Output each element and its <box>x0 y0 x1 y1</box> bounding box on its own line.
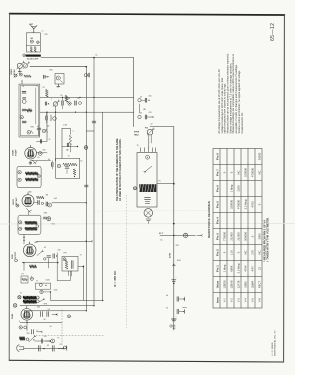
svg-text:470K: 470K <box>169 252 172 258</box>
wire y305 <box>20 305 94 307</box>
wire y310 <box>30 310 86 312</box>
svg-text:12BE6: 12BE6 <box>223 280 227 289</box>
T3 terminal 3 <box>37 175 40 178</box>
wire y322 <box>20 321 62 323</box>
T3 winding 1 <box>26 172 39 175</box>
loop coil winding 2 <box>34 47 36 52</box>
svg-text:DET AVC: DET AVC <box>15 197 18 205</box>
speaker arrow <box>145 166 151 171</box>
tube V4 <box>23 244 36 257</box>
svg-text:680K: 680K <box>230 265 234 271</box>
svg-text:.05: .05 <box>37 157 40 159</box>
wire above T3 <box>31 160 51 162</box>
tube V2 <box>25 147 37 159</box>
svg-text:V-6: V-6 <box>258 298 262 303</box>
svg-text:12AT6: 12AT6 <box>12 198 15 205</box>
T4 winding 1 <box>25 221 37 224</box>
svg-text:5: 5 <box>32 311 33 313</box>
wire B+ y241 <box>36 240 86 242</box>
T3 winding 2 <box>26 178 39 181</box>
svg-text:.05: .05 <box>77 98 80 100</box>
capacitor C23 <box>40 339 42 343</box>
T2 capacitor <box>65 166 69 168</box>
wire y300 <box>51 299 103 301</box>
capacitor C25 <box>51 346 53 352</box>
svg-text:25,000: 25,000 <box>230 232 234 241</box>
tube V5 <box>21 309 33 321</box>
tube V3 <box>22 195 34 207</box>
svg-text:AS USED IN PHOTOFACT FOLDERS F: AS USED IN PHOTOFACT FOLDERS FOR THIS CH… <box>119 138 122 201</box>
svg-text:.1: .1 <box>51 99 53 101</box>
T1 winding c <box>22 108 26 110</box>
svg-text:.01: .01 <box>37 126 40 128</box>
component value labels <box>19 31 181 348</box>
svg-text:65—12: 65—12 <box>270 23 276 41</box>
terminal circle V3 <box>16 204 19 207</box>
svg-text:THE SYMBOLIZATION OF THE SCHEM: THE SYMBOLIZATION OF THE SCHEMATIC IS TH… <box>116 138 119 201</box>
terminal circle V4 <box>15 259 18 262</box>
svg-text:T4: T4 <box>20 293 22 295</box>
power plug <box>17 345 20 352</box>
svg-text:47: 47 <box>49 139 51 141</box>
resistor R1 <box>24 75 31 78</box>
voice coil hatch band <box>139 184 156 192</box>
svg-text:Pin 7: Pin 7 <box>216 169 220 176</box>
svg-text:22: 22 <box>258 267 262 270</box>
T5 primary circle <box>63 258 66 261</box>
wire V2 plate <box>36 140 47 142</box>
svg-text:RESISTANCE READINGS: RESISTANCE READINGS <box>207 201 211 238</box>
junction dot <box>43 348 44 349</box>
chassis dashed vertical <box>126 195 128 330</box>
junction y183 <box>173 183 175 185</box>
T5 core <box>71 261 73 269</box>
capacitor C17 <box>43 216 47 218</box>
bus cap y186 <box>85 184 89 186</box>
svg-text:4700: 4700 <box>251 201 255 207</box>
svg-text:1000: 1000 <box>177 260 181 262</box>
capacitor C22 <box>31 330 33 334</box>
terminal pair <box>19 326 22 329</box>
svg-text:51-530 LOOP: 51-530 LOOP <box>27 58 39 60</box>
svg-text:Value: Value <box>216 280 220 288</box>
wire below T4 <box>23 234 25 244</box>
capacitor C21 <box>46 312 48 317</box>
svg-text:12AT6: 12AT6 <box>237 280 241 288</box>
svg-text:12BE6: 12BE6 <box>11 68 13 75</box>
svg-text:12BA6: 12BA6 <box>12 149 15 156</box>
svg-text:Item: Item <box>216 297 220 303</box>
IF transformer T2 box <box>56 158 80 178</box>
svg-text:270: 270 <box>251 250 255 255</box>
svg-text:1 Meg: 1 Meg <box>223 264 227 272</box>
svg-text:PL: PL <box>58 338 60 340</box>
arrow bottom <box>58 347 62 349</box>
T4 winding 2 <box>25 227 37 230</box>
svg-text:† TAKEN WITH VTVM VOLTMETER.: † TAKEN WITH VTVM VOLTMETER. <box>266 217 270 262</box>
svg-text:B+: B+ <box>96 55 98 57</box>
svg-text:220000: 220000 <box>244 168 248 177</box>
bus crosstie <box>86 130 94 132</box>
T3 terminal 1 <box>18 171 21 174</box>
svg-text:+: + <box>176 316 177 318</box>
wire y262 <box>22 262 58 264</box>
svg-text:V-5: V-5 <box>251 298 255 303</box>
speaker box <box>137 153 157 208</box>
dashed chassis line <box>61 310 63 346</box>
svg-text:NC: NC <box>244 251 248 255</box>
resistor R3 <box>50 115 52 121</box>
ground V2 <box>32 160 36 164</box>
resistor R8 <box>20 337 26 341</box>
switch SW1 <box>26 338 29 341</box>
svg-text:T6: T6 <box>137 145 139 147</box>
IF transformer T3 box <box>17 166 41 187</box>
svg-text:B+: B+ <box>81 161 83 163</box>
T4 terminal 3 <box>36 225 39 228</box>
svg-text:PRI: PRI <box>45 34 48 36</box>
svg-text:3.2: 3.2 <box>48 309 51 311</box>
ground gang <box>19 68 21 71</box>
loop terminal circle 2 <box>37 41 40 44</box>
T6 arrow <box>40 300 44 302</box>
svg-text:50B5: 50B5 <box>244 281 248 288</box>
T3 terminal 2 <box>18 178 21 181</box>
T6 terminal right 1 <box>36 296 39 299</box>
small circle V4 <box>44 258 46 260</box>
capacitor C9 <box>138 99 141 102</box>
pilot lamp <box>51 339 55 343</box>
svg-text:40: 40 <box>44 319 46 321</box>
T1 terminal circle d <box>20 116 23 119</box>
svg-text:47: 47 <box>151 124 153 126</box>
svg-text:© J. F. RIDER: © J. F. RIDER <box>271 342 274 356</box>
resistor R4 <box>139 104 141 113</box>
resistor R2 <box>45 90 48 98</box>
electrolytic on bus <box>84 146 88 150</box>
bus line x103 <box>102 112 104 300</box>
svg-text:3.3 Meg: 3.3 Meg <box>237 263 241 273</box>
bypass circle <box>68 102 71 105</box>
svg-text:470: 470 <box>149 112 152 114</box>
svg-text:+: + <box>176 277 177 279</box>
svg-text:10M: 10M <box>44 213 48 215</box>
ferrite rod bar <box>26 55 41 57</box>
svg-text:455: 455 <box>43 150 46 152</box>
wire top right <box>150 126 174 128</box>
bus tick cap <box>92 120 96 122</box>
svg-text:2200: 2200 <box>237 185 241 191</box>
T6 terminal left <box>18 296 21 299</box>
capacitor C11 <box>37 127 41 129</box>
bus line x86 <box>85 67 87 311</box>
svg-text:35W4: 35W4 <box>11 313 14 319</box>
T5 winding <box>65 261 68 270</box>
svg-text:120: 120 <box>44 336 47 338</box>
voice coil circle <box>144 209 153 218</box>
small box B2 <box>35 283 50 289</box>
grid circle <box>38 152 42 156</box>
svg-text:B2: B2 <box>31 38 33 40</box>
svg-text:.05: .05 <box>140 97 143 99</box>
arrow right <box>197 234 201 236</box>
resistance table grid <box>213 149 262 309</box>
svg-text:R1: R1 <box>43 87 45 89</box>
svg-text:1 Meg: 1 Meg <box>230 184 234 192</box>
svg-text:IF AMP: IF AMP <box>15 149 18 156</box>
svg-text:T2: T2 <box>68 156 70 158</box>
svg-text:.02: .02 <box>44 247 47 249</box>
dark cap y320 <box>172 318 177 320</box>
bus right x174 <box>173 127 175 330</box>
svg-text:NC: NC <box>258 171 262 175</box>
wire x47 <box>46 112 48 141</box>
T1 bottom trimmer <box>27 131 31 135</box>
part circle <box>30 277 33 280</box>
svg-text:.05: .05 <box>66 150 68 152</box>
svg-text:NC: NC <box>258 251 262 255</box>
junction dots y112 <box>46 112 47 113</box>
svg-text:35W4: 35W4 <box>251 280 255 288</box>
T5 arrow out <box>78 266 83 268</box>
speaker terminal <box>13 304 17 308</box>
capacitor C18 <box>47 255 51 257</box>
below bars <box>146 218 151 220</box>
svg-text:30000: 30000 <box>258 152 262 160</box>
svg-text:NC: NC <box>237 171 241 175</box>
junction circle y316 <box>68 315 71 318</box>
wire y341 <box>35 340 50 342</box>
T1 capacitor e <box>22 120 26 122</box>
variable capacitor C1B <box>23 64 27 68</box>
svg-text:Pin 2: Pin 2 <box>216 249 220 256</box>
svg-text:.02: .02 <box>60 95 63 97</box>
svg-text:T1: T1 <box>36 86 38 88</box>
resistor R5 <box>37 196 45 199</box>
branch y311 <box>176 309 178 314</box>
svg-text:V-2: V-2 <box>230 298 234 303</box>
svg-text:3000: 3000 <box>258 233 262 239</box>
svg-text:L1: L1 <box>42 31 44 33</box>
detector transformer T4 box <box>18 215 41 234</box>
svg-text:IF = 455 KC: IF = 455 KC <box>113 270 117 287</box>
svg-text:RECT: RECT <box>258 280 262 288</box>
svg-text:.05: .05 <box>47 345 50 347</box>
terminal ticks <box>140 148 142 152</box>
svg-text:V-3: V-3 <box>237 298 241 303</box>
svg-text:47: 47 <box>60 344 62 346</box>
capacitor C10 <box>138 115 141 118</box>
wire y112 <box>40 111 134 113</box>
svg-text:1.1K: 1.1K <box>230 250 234 256</box>
output transformer T6 winding 1 <box>23 296 36 300</box>
svg-text:.002: .002 <box>54 198 58 200</box>
loop inner divider <box>26 44 40 46</box>
T5 below ticks <box>68 271 70 276</box>
capacitor C6 <box>45 116 47 120</box>
branch y299 <box>176 297 178 302</box>
bus end component <box>170 325 172 327</box>
oscillator coil L2 box <box>55 74 64 85</box>
svg-text:B+: B+ <box>161 240 163 242</box>
T1 capacitor a <box>22 91 26 93</box>
svg-text:.05: .05 <box>48 159 51 161</box>
svg-text:1.5M: 1.5M <box>63 125 67 127</box>
loop coil winding 1 <box>30 47 32 52</box>
line tube to wire <box>26 320 28 331</box>
T2 winding <box>63 163 77 166</box>
svg-text:300000: 300000 <box>244 232 248 241</box>
trimmer C12 <box>42 129 45 132</box>
capacitor C13 <box>62 146 78 148</box>
border frame <box>9 14 284 362</box>
svg-text:3.3 Meg: 3.3 Meg <box>244 199 248 209</box>
jack leads <box>148 135 150 148</box>
loop terminal circle 1 <box>30 40 33 43</box>
top jack circle <box>147 129 153 135</box>
resistor R10 <box>69 135 72 145</box>
resistor R6 <box>30 265 37 268</box>
svg-text:Pin 6: Pin 6 <box>216 185 220 192</box>
arrow lamp <box>46 340 50 342</box>
svg-text:.2: .2 <box>36 330 38 332</box>
svg-text:SW: SW <box>27 333 30 335</box>
terminal A circle <box>23 54 26 57</box>
T4 terminal 1 <box>19 221 22 224</box>
svg-text:220: 220 <box>58 250 61 252</box>
T1 trimmer circle b <box>22 100 26 104</box>
resistor box R7 <box>21 276 28 283</box>
svg-text:V-4: V-4 <box>244 298 248 303</box>
svg-text:50: 50 <box>50 326 52 328</box>
svg-text:.02: .02 <box>140 113 143 115</box>
loop antenna L1 box <box>26 33 40 52</box>
capacitor C8 <box>74 101 76 105</box>
capacitor C3 on bus <box>84 74 87 77</box>
svg-text:40: 40 <box>166 295 168 297</box>
antenna <box>33 28 35 33</box>
T2 terminal <box>57 164 61 168</box>
capacitor C16 <box>45 202 47 206</box>
svg-text:R12: R12 <box>176 245 179 247</box>
wire osc run <box>30 66 86 68</box>
svg-text:600: 600 <box>37 307 40 309</box>
svg-text:Pin 3: Pin 3 <box>216 233 220 240</box>
fold mark <box>95 210 210 213</box>
svg-text:1500: 1500 <box>54 290 58 292</box>
svg-text:47K*: 47K* <box>251 266 255 272</box>
T1 inner lead <box>35 88 37 124</box>
svg-text:Pin 5: Pin 5 <box>216 201 220 208</box>
wire y348 <box>24 348 66 350</box>
svg-text:25,000: 25,000 <box>237 232 241 241</box>
wire y335 dashed <box>36 335 105 337</box>
svg-text:.05: .05 <box>143 109 146 111</box>
meter circle <box>183 233 187 237</box>
electrolytic y281 <box>172 279 176 281</box>
svg-text:OUTPUT: OUTPUT <box>15 251 17 259</box>
ground osc <box>57 84 59 87</box>
capacitor C4 <box>44 102 46 105</box>
electrolytic above box <box>47 217 51 221</box>
svg-text:Pin 4: Pin 4 <box>216 217 220 224</box>
wire x57 <box>56 253 58 271</box>
trimmer C5 <box>53 102 57 106</box>
resistor R11 <box>65 96 68 103</box>
junction dots y97/57 <box>93 57 95 59</box>
svg-text:T5: T5 <box>80 255 82 257</box>
small part above T3 <box>29 162 32 165</box>
capacitor C7 <box>61 101 63 105</box>
capacitor C14 <box>51 163 53 167</box>
svg-text:FIELD: FIELD <box>134 134 140 136</box>
capacitor C24 <box>37 346 39 352</box>
wire x55 <box>55 112 57 161</box>
output transformer T5 box <box>62 257 78 272</box>
svg-text:470000: 470000 <box>237 200 241 209</box>
junction pair y264 <box>173 264 174 265</box>
wire y97 <box>40 96 134 98</box>
svg-text:470000: 470000 <box>251 168 255 177</box>
crease <box>0 222 295 225</box>
wire top B+ run <box>41 57 134 59</box>
svg-text:770000: 770000 <box>223 232 227 241</box>
capacitor C20 <box>40 312 42 317</box>
svg-text:470K: 470K <box>244 265 248 271</box>
capacitor C15 <box>37 201 39 205</box>
wire x83 <box>82 267 84 301</box>
svg-text:12BA6: 12BA6 <box>230 280 234 289</box>
svg-text:PRI: PRI <box>64 253 67 255</box>
osc trimmer cluster <box>14 74 17 77</box>
svg-text:SPKR: SPKR <box>134 132 140 134</box>
bus line x94 <box>93 58 95 306</box>
svg-text:Pin 1: Pin 1 <box>216 265 220 272</box>
T2 trimmer <box>73 169 76 175</box>
junction y223 <box>173 223 175 225</box>
svg-text:P.M.: P.M. <box>145 128 149 130</box>
pot circle <box>40 290 43 293</box>
dot cluster x75 <box>75 112 76 113</box>
ground V3 <box>27 209 31 213</box>
wire x50 <box>50 292 52 301</box>
svg-text:Pin 8: Pin 8 <box>216 153 220 160</box>
wire V3 to bus <box>52 202 86 204</box>
bus line x133 <box>133 58 135 127</box>
box B2 circle <box>39 283 42 286</box>
wire gang to T1 <box>21 80 23 84</box>
oscillator coil circle <box>56 76 60 80</box>
output transformer T6 winding 2 <box>23 300 36 304</box>
svg-text:V-1: V-1 <box>223 298 227 303</box>
wire y235 <box>160 234 196 236</box>
svg-text:measurements DC.: measurements DC. <box>241 112 244 134</box>
lower bars <box>145 196 151 198</box>
svg-text:100: 100 <box>47 126 50 128</box>
svg-text:.1: .1 <box>72 131 74 133</box>
variable capacitor C1A <box>17 63 22 68</box>
capacitor C2 <box>43 75 45 78</box>
hatch terminal <box>134 187 137 190</box>
resistor R9 <box>63 346 66 349</box>
V4 grid arrow <box>37 252 42 256</box>
T4 terminal 2 <box>19 227 22 230</box>
svg-text:VOL: VOL <box>52 224 56 226</box>
svg-text:R7: R7 <box>22 274 24 276</box>
IF transformer T1 inner box <box>20 86 38 136</box>
IF transformer T1 outer box <box>19 84 40 137</box>
svg-text:330000: 330000 <box>230 200 234 209</box>
